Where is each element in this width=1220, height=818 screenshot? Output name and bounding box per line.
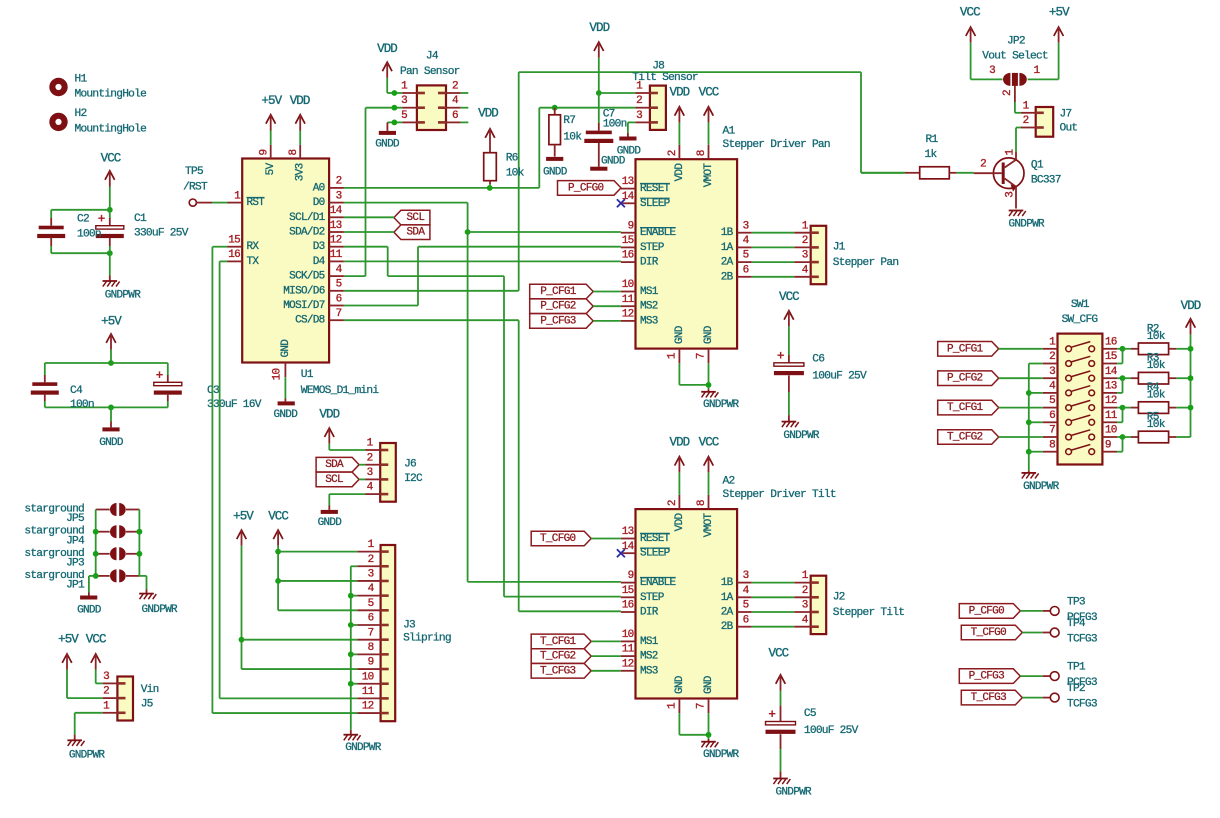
svg-text:ENABLE: ENABLE [640,577,677,589]
svg-text:TP1: TP1 [1067,662,1086,674]
svg-text:SCL: SCL [407,212,425,224]
svg-text:13: 13 [330,220,342,232]
svg-text:DIR: DIR [640,607,659,619]
svg-text:RST: RST [247,197,266,209]
svg-text:+5V: +5V [58,633,79,647]
svg-text:2B: 2B [721,271,734,283]
svg-text:T_CFG1: T_CFG1 [540,636,577,648]
svg-text:9: 9 [368,657,374,669]
svg-text:A2: A2 [723,475,735,487]
svg-text:VDD: VDD [674,163,686,182]
svg-text:VDD: VDD [290,94,310,108]
svg-text:GNDPWR: GNDPWR [703,399,740,411]
svg-text:12: 12 [1105,395,1117,407]
svg-text:T_CFG0: T_CFG0 [540,533,576,545]
svg-text:RESET: RESET [640,183,671,195]
svg-text:Stepper Tilt: Stepper Tilt [833,607,905,619]
svg-text:GND: GND [674,675,686,694]
svg-text:J2: J2 [833,592,845,604]
svg-text:10: 10 [1105,425,1117,437]
svg-text:GNDD: GNDD [375,138,400,150]
svg-text:SCL: SCL [325,474,343,486]
svg-text:9: 9 [628,220,634,232]
svg-text:3: 3 [636,110,642,122]
svg-text:MS3: MS3 [640,665,658,677]
svg-text:T_CFG2: T_CFG2 [947,432,983,444]
svg-text:Pan Sensor: Pan Sensor [400,66,460,78]
svg-text:9: 9 [628,570,634,582]
svg-text:Vout Select: Vout Select [982,50,1048,62]
svg-text:7: 7 [1049,425,1055,437]
svg-text:JP2: JP2 [1007,35,1025,47]
svg-text:J6: J6 [404,459,416,471]
svg-text:GNDD: GNDD [318,517,343,529]
svg-text:GNDPWR: GNDPWR [783,430,820,442]
svg-text:2: 2 [980,159,986,171]
svg-text:C1: C1 [134,213,147,225]
svg-text:VDD: VDD [669,435,689,449]
svg-text:VDD: VDD [478,107,498,121]
svg-text:GNDPWR: GNDPWR [141,604,178,616]
svg-text:P_CFG0: P_CFG0 [969,605,1005,617]
svg-text:15: 15 [622,235,634,247]
svg-text:14: 14 [1105,366,1118,378]
svg-text:CS/D8: CS/D8 [295,315,325,327]
svg-text:SW_CFG: SW_CFG [1062,314,1099,326]
svg-text:8: 8 [696,500,708,506]
svg-text:J5: J5 [141,699,153,711]
svg-text:MS2: MS2 [640,651,658,663]
svg-text:R6: R6 [506,152,518,164]
svg-text:VCC: VCC [268,509,288,523]
svg-text:3: 3 [802,250,808,262]
svg-text:C6: C6 [812,354,824,366]
svg-text:5: 5 [1049,395,1055,407]
svg-text:MountingHole: MountingHole [75,123,147,135]
svg-text:11: 11 [362,686,375,698]
svg-text:JP1: JP1 [66,580,85,592]
svg-text:STEP: STEP [640,592,665,604]
svg-text:J1: J1 [833,242,846,254]
svg-text:SLEEP: SLEEP [640,548,671,560]
svg-text:2: 2 [1002,90,1014,96]
svg-text:VCC: VCC [699,435,719,449]
svg-text:RESET: RESET [640,533,671,545]
svg-text:7: 7 [696,703,708,709]
svg-text:15: 15 [622,585,634,597]
svg-text:WEMOS_D1_mini: WEMOS_D1_mini [301,385,380,397]
svg-text:U1: U1 [301,369,314,381]
svg-text:2: 2 [367,452,373,464]
svg-text:C5: C5 [804,708,816,720]
svg-text:8: 8 [1049,439,1055,451]
svg-text:JP3: JP3 [66,557,84,569]
svg-text:VDD: VDD [319,408,339,422]
svg-text:P_CFG1: P_CFG1 [947,343,984,355]
svg-text:8: 8 [368,642,374,654]
svg-text:6: 6 [1049,410,1055,422]
svg-text:JP4: JP4 [66,535,85,547]
svg-text:14: 14 [330,205,343,217]
svg-text:H2: H2 [75,108,87,120]
svg-text:10k: 10k [1147,331,1166,343]
svg-text:GNDPWR: GNDPWR [1008,219,1045,231]
svg-text:BC337: BC337 [1031,175,1061,187]
svg-text:MISO/D6: MISO/D6 [283,285,324,297]
svg-text:VCC: VCC [699,85,719,99]
svg-text:MS1: MS1 [640,286,659,298]
svg-text:TP4: TP4 [1067,618,1086,630]
svg-text:DIR: DIR [640,257,659,269]
svg-text:6: 6 [743,614,749,626]
svg-text:TP2: TP2 [1067,683,1085,695]
svg-text:D0: D0 [313,197,325,209]
svg-text:VCC: VCC [768,646,788,660]
svg-text:16: 16 [622,250,634,262]
svg-text:T_CFG2: T_CFG2 [540,651,576,663]
svg-text:12: 12 [622,658,634,670]
svg-text:9: 9 [259,149,271,155]
svg-text:7: 7 [696,353,708,359]
svg-text:11: 11 [1105,410,1118,422]
svg-text:16: 16 [622,600,634,612]
svg-text:SCK/D5: SCK/D5 [289,271,325,283]
svg-text:11: 11 [330,249,343,261]
svg-text:SW1: SW1 [1071,299,1090,311]
svg-text:11: 11 [622,294,635,306]
svg-text:330uF 25V: 330uF 25V [134,228,189,240]
svg-text:+: + [768,707,776,722]
svg-text:13: 13 [1105,381,1117,393]
svg-text:3: 3 [743,220,749,232]
svg-text:Tilt Sensor: Tilt Sensor [632,72,698,84]
svg-text:3V3: 3V3 [295,163,307,181]
svg-text:J4: J4 [426,50,439,62]
svg-text:Stepper Pan: Stepper Pan [833,257,899,269]
svg-text:GNDPWR: GNDPWR [105,290,142,302]
svg-text:+: + [156,368,164,383]
svg-text:5: 5 [743,250,749,262]
svg-text:D4: D4 [313,256,326,268]
svg-text:5V: 5V [265,162,277,175]
svg-text:GNDD: GNDD [77,604,102,616]
svg-text:Stepper Driver Pan: Stepper Driver Pan [723,139,830,151]
svg-text:2: 2 [336,176,342,188]
svg-text:3: 3 [368,569,374,581]
svg-text:MS1: MS1 [640,636,659,648]
svg-text:10k: 10k [1147,360,1166,372]
svg-text:1A: 1A [721,592,734,604]
svg-text:1k: 1k [925,149,938,161]
svg-text:15: 15 [228,235,240,247]
svg-text:10k: 10k [1147,419,1166,431]
svg-text:12: 12 [622,309,634,321]
svg-text:6: 6 [743,264,749,276]
svg-text:VCC: VCC [779,290,799,304]
svg-text:P_CFG3: P_CFG3 [969,671,1005,683]
svg-text:+5V: +5V [261,94,282,108]
svg-text:D3: D3 [313,241,325,253]
svg-text:TX: TX [247,256,260,268]
svg-text:SDA: SDA [407,227,426,239]
svg-text:MountingHole: MountingHole [75,89,147,101]
svg-text:1B: 1B [721,577,734,589]
svg-text:2: 2 [802,235,808,247]
svg-text:STEP: STEP [640,242,665,254]
svg-text:VDD: VDD [589,21,609,35]
svg-text:100n: 100n [603,118,627,130]
svg-text:P_CFG0: P_CFG0 [568,182,604,194]
svg-text:10: 10 [622,279,634,291]
svg-text:VDD: VDD [669,85,689,99]
svg-text:6: 6 [452,110,458,122]
svg-text:GNDD: GNDD [617,146,642,158]
svg-text:A0: A0 [313,182,325,194]
svg-text:9: 9 [1105,439,1111,451]
svg-text:10k: 10k [1147,390,1166,402]
svg-text:SLEEP: SLEEP [640,198,671,210]
svg-text:SDA: SDA [325,459,344,471]
svg-text:3: 3 [989,65,995,77]
svg-text:MOSI/D7: MOSI/D7 [283,300,324,312]
svg-text:GND: GND [703,325,715,344]
svg-text:VDD: VDD [1181,299,1201,313]
svg-text:C4: C4 [70,385,83,397]
svg-text:12: 12 [362,701,374,713]
svg-text:J7: J7 [1060,108,1072,120]
svg-text:C2: C2 [77,214,89,226]
svg-text:2: 2 [667,500,679,506]
svg-text:VMOT: VMOT [703,513,715,538]
svg-text:5: 5 [336,279,342,291]
svg-text:10: 10 [622,629,634,641]
svg-text:100n: 100n [70,399,94,411]
svg-text:GND: GND [280,339,292,358]
svg-text:Out: Out [1060,123,1078,135]
svg-text:TCFG3: TCFG3 [1067,699,1097,711]
svg-text:10k: 10k [506,167,525,179]
svg-text:100uF 25V: 100uF 25V [804,725,859,737]
svg-text:3: 3 [1005,192,1017,198]
svg-text:10k: 10k [563,131,582,143]
svg-text:100uF 25V: 100uF 25V [812,370,867,382]
svg-text:330uF 16V: 330uF 16V [207,399,262,411]
svg-text:+: + [777,349,785,364]
svg-text:8: 8 [696,150,708,156]
svg-text:2: 2 [1023,115,1029,127]
svg-text:P_CFG2: P_CFG2 [947,373,983,385]
svg-text:GNDPWR: GNDPWR [1023,481,1060,493]
svg-text:2A: 2A [721,607,734,619]
svg-text:3: 3 [336,190,342,202]
svg-text:Q1: Q1 [1031,159,1044,171]
svg-text:MS2: MS2 [640,301,658,313]
svg-text:7: 7 [368,627,374,639]
svg-text:H1: H1 [75,73,88,85]
svg-text:MS3: MS3 [640,315,658,327]
svg-text:+: + [98,211,106,226]
svg-text:3: 3 [103,671,109,683]
svg-text:5: 5 [368,598,374,610]
svg-text:+5V: +5V [101,314,122,328]
svg-text:VDD: VDD [377,42,397,56]
svg-text:12: 12 [330,235,342,247]
svg-text:A1: A1 [723,126,736,138]
svg-text:2: 2 [103,686,109,698]
svg-text:2: 2 [802,585,808,597]
svg-text:P_CFG1: P_CFG1 [540,286,577,298]
svg-text:3: 3 [367,467,373,479]
svg-text:JP5: JP5 [66,513,84,525]
svg-text:2: 2 [452,80,458,92]
svg-text:100n: 100n [77,228,101,240]
svg-text:1A: 1A [721,242,734,254]
svg-text:6: 6 [368,613,374,625]
svg-text:8: 8 [288,149,300,155]
svg-text:GND: GND [674,325,686,344]
svg-text:T_CFG3: T_CFG3 [971,692,1007,704]
svg-text:1B: 1B [721,227,734,239]
svg-text:GNDPWR: GNDPWR [703,749,740,761]
svg-text:T_CFG0: T_CFG0 [971,627,1007,639]
svg-text:ENABLE: ENABLE [640,227,677,239]
svg-text:5: 5 [401,110,407,122]
svg-text:R7: R7 [563,115,575,127]
svg-text:GNDPWR: GNDPWR [69,749,106,761]
svg-text:2: 2 [368,554,374,566]
svg-text:Slipring: Slipring [403,632,451,644]
svg-text:2: 2 [667,150,679,156]
svg-text:VCC: VCC [960,6,980,20]
svg-text:6: 6 [336,293,342,305]
svg-text:GNDD: GNDD [273,409,298,421]
svg-text:Stepper Driver Tilt: Stepper Driver Tilt [723,489,836,501]
svg-text:3: 3 [743,570,749,582]
svg-text:J8: J8 [652,60,664,72]
svg-text:16: 16 [228,249,240,261]
svg-text:2A: 2A [721,257,734,269]
svg-text:5: 5 [743,600,749,612]
svg-text:GNDD: GNDD [99,437,124,449]
svg-text:13: 13 [622,176,634,188]
svg-text:2: 2 [636,95,642,107]
svg-text:J3: J3 [403,620,415,632]
svg-text:10: 10 [362,671,374,683]
svg-text:/RST: /RST [183,181,208,193]
svg-text:+5V: +5V [233,509,254,523]
svg-text:TP5: TP5 [185,166,203,178]
svg-text:VDD: VDD [674,513,686,532]
svg-text:3: 3 [802,600,808,612]
svg-text:VCC: VCC [101,151,121,165]
svg-text:TP3: TP3 [1067,596,1085,608]
svg-text:P_CFG3: P_CFG3 [540,315,576,327]
svg-text:15: 15 [1105,351,1117,363]
svg-text:GNDPWR: GNDPWR [775,787,812,799]
svg-text:VMOT: VMOT [703,163,715,188]
svg-text:R1: R1 [926,134,939,146]
svg-text:T_CFG1: T_CFG1 [947,402,984,414]
svg-text:SCL/D1: SCL/D1 [289,212,326,224]
svg-text:3: 3 [401,95,407,107]
svg-text:P_CFG2: P_CFG2 [540,301,576,313]
svg-text:GNDPWR: GNDPWR [345,742,382,754]
svg-text:Vin: Vin [141,684,159,696]
svg-text:GND: GND [703,675,715,694]
svg-text:2B: 2B [721,621,734,633]
svg-text:7: 7 [336,308,342,320]
svg-text:3: 3 [1049,366,1055,378]
svg-text:T_CFG3: T_CFG3 [540,665,576,677]
svg-text:SDA/D2: SDA/D2 [289,227,325,239]
svg-text:16: 16 [1105,336,1117,348]
svg-text:2: 2 [1049,351,1055,363]
svg-text:RX: RX [247,241,260,253]
svg-text:13: 13 [622,526,634,538]
svg-text:VCC: VCC [86,633,106,647]
svg-text:10: 10 [272,369,284,381]
svg-text:GNDD: GNDD [543,166,568,178]
svg-text:I2C: I2C [404,473,423,485]
svg-text:11: 11 [622,644,635,656]
svg-text:+5V: +5V [1049,6,1070,20]
svg-text:TCFG3: TCFG3 [1067,633,1097,645]
